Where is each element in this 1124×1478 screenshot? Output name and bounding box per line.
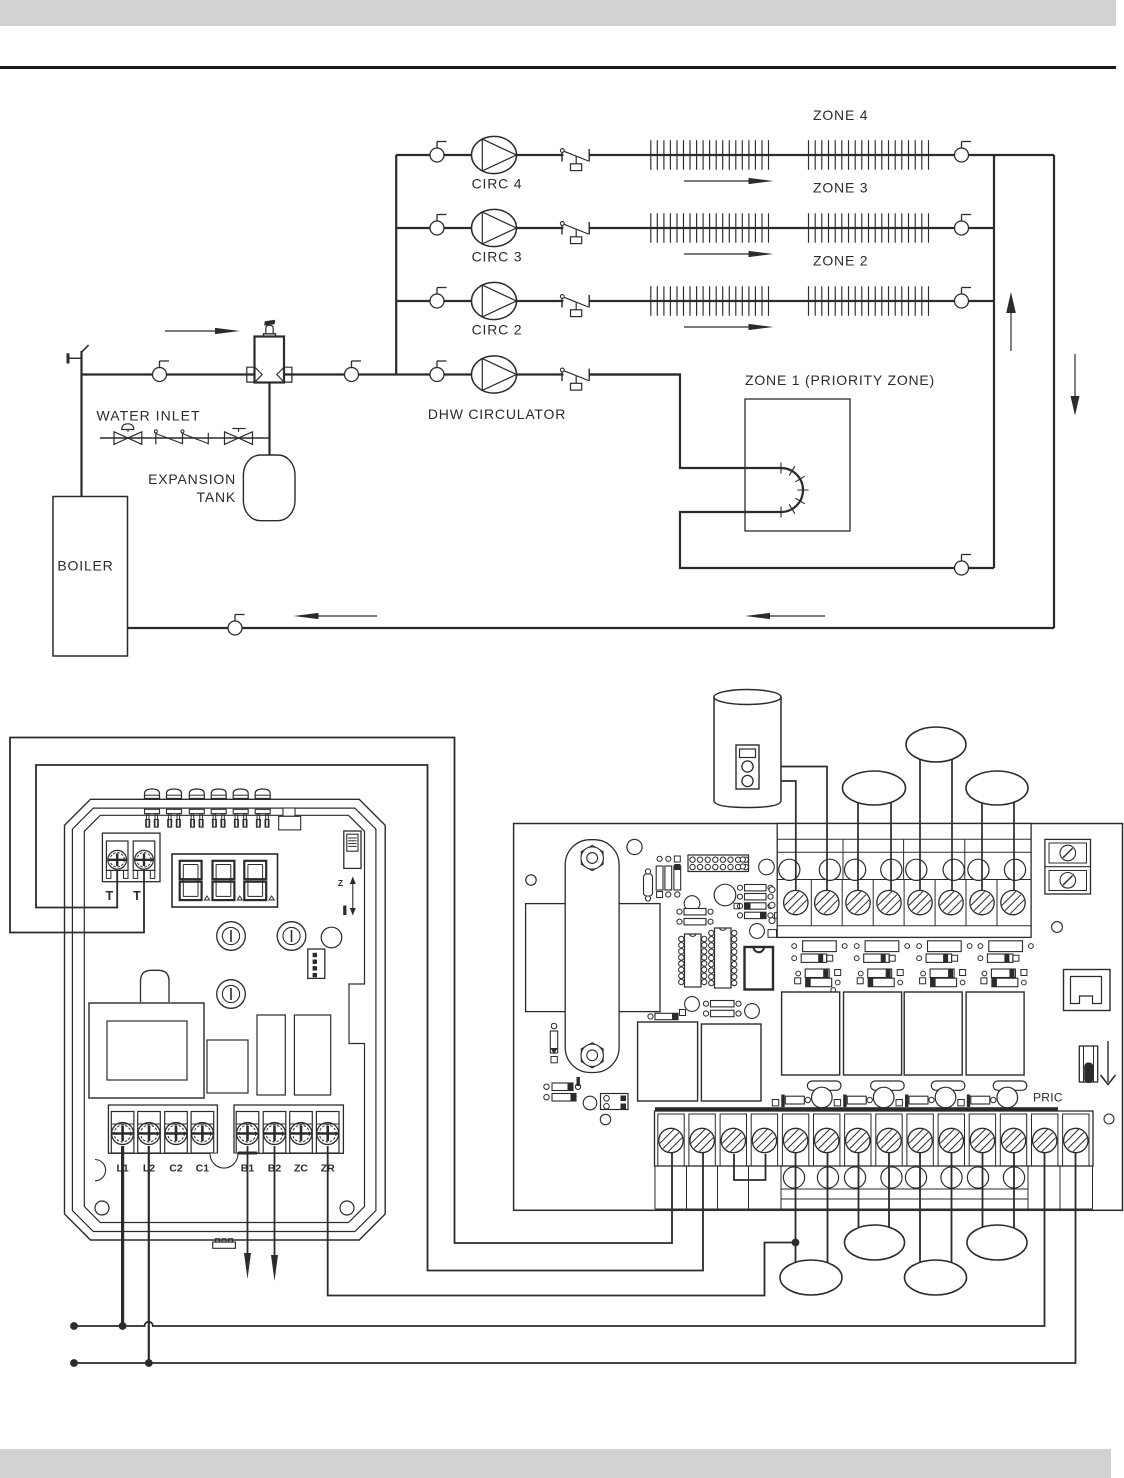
valve at circulator 4 [430,142,447,163]
RJ11 jack [1064,970,1111,1011]
wire inner return trunk [993,155,995,568]
relay K1 [257,1015,285,1095]
svg-text:C2: C2 [169,1163,183,1175]
top terminal strip housing [777,824,1031,938]
mode slide switch [344,831,361,868]
under-strip wire circles [783,1167,1024,1188]
LED D6 [255,789,270,827]
valve on boiler return [228,615,245,636]
component box right of LEDs [279,808,301,830]
priority DIP switch [1079,1046,1097,1083]
valve at circulator 3 [430,215,447,236]
screw terminal B1 [236,1112,259,1154]
indirect water heater tank [714,690,781,808]
relay K3 mid rectangle [207,1040,248,1093]
seven segment digit [213,861,243,900]
wire zone row 4 pipe [396,154,1054,156]
IC U3 [745,947,774,990]
relay RLY3 [904,992,962,1075]
junction dot L2 line2 [145,1359,153,1367]
zone valve switch row 2 [560,295,589,317]
screw terminal ZR [316,1112,339,1154]
radiator fins group A zone 4 [651,140,769,169]
svg-text:ZC: ZC [294,1163,308,1175]
wire zone3 end switch leads [920,748,952,891]
screw terminal B2 [263,1112,286,1154]
screw terminal ZC [290,1112,313,1154]
bottom strip screw terminals 1-14 [658,1114,1089,1166]
thermostat 4 ellipse [967,1225,1027,1260]
screw terminal T1 [106,841,128,878]
mounting hole top [627,839,642,854]
svg-text:BOILER: BOILER [57,558,113,574]
hole bottom right [1104,1114,1114,1124]
svg-text:ZONE 3: ZONE 3 [813,180,868,196]
seven segment display module [172,854,278,907]
svg-text:CIRC 4: CIRC 4 [472,176,523,192]
zone valve switch DHW [560,368,589,390]
junction dot ZR at thermostat 1 wire [792,1239,800,1247]
tank aquastat control [736,745,759,789]
wire left boiler riser [80,351,82,497]
junction dot line2 left end [70,1359,78,1367]
screw terminal L1 [111,1112,134,1154]
potentiometer P3 [217,980,246,1009]
resistor R4 vertical with diode [550,1023,557,1063]
DHW circulator pump [472,356,517,393]
header rule [0,66,1116,69]
seven segment digit [180,861,210,900]
under-strip boxes right [1028,1166,1093,1209]
left board middle case outline [72,808,376,1231]
aux terminal block 2pos [1045,839,1091,894]
header gray bar [0,0,1116,26]
PCB left edge notch [95,1160,106,1181]
priority switch arrow [1101,1041,1116,1085]
zone valve switch row 4 [560,149,589,171]
valve at circulator 2 [430,288,447,309]
boiler [53,497,128,657]
water inlet globe valve with bonnet [114,424,142,445]
hole right of header [759,859,775,875]
resistor bank R1-R3 vertical [656,856,681,898]
transformer block left board [89,1003,204,1098]
relay RLY4 [966,992,1024,1075]
mounting hole left [526,875,536,885]
return valve zone 4 [955,142,972,163]
power terminal strip L1 L2 C2 C1 housing [108,1105,217,1153]
valve at DHW circulator [430,361,447,382]
svg-text:EXPANSION: EXPANSION [148,471,236,487]
transformer bolt bottom [581,1043,603,1068]
return valve zone 2 [955,288,972,309]
wire thermostat loop inner from T1 to zone terminal 2 [36,765,703,1271]
indirect tank heat-exchange coil [758,468,803,512]
screw terminal L2 [138,1112,161,1154]
black tab under B1 [238,1152,257,1155]
wire L1 hot drop [121,1146,124,1326]
LED D2 [167,789,182,827]
zone valve switch row 3 [560,222,589,244]
pin header 2x8 [688,855,749,872]
svg-text:CIRC 3: CIRC 3 [472,249,523,265]
zone 2 end switch ellipse [843,771,906,805]
wire DHW return from tank [680,512,994,568]
return flow arrow left 1 [294,613,378,619]
transformer core vertical [565,840,619,1073]
radiator fins group B zone 4 [809,140,929,169]
flow arrow zone 2 [684,324,774,330]
valve on DHW return [955,555,972,576]
mixing valve MV body [255,320,285,383]
bottom terminal strip housing [655,1111,1094,1166]
junction dot line1 left end [70,1322,78,1330]
wire 120V line 2 [74,1153,1076,1363]
thermostat 3 ellipse [905,1260,967,1295]
wire water inlet line [100,437,270,439]
svg-text:ZONE 4: ZONE 4 [813,107,868,123]
test points left of strip [740,857,776,937]
return flow arrow left 2 [745,613,825,619]
resistor stack right [734,885,780,919]
wire 120V line 1 with hop over L2 wire [74,1153,1045,1326]
LED D4 [211,789,226,827]
wire B1 arrow to boiler [244,1146,251,1279]
hole mid right [1052,922,1063,933]
relay RLY2 [844,992,902,1075]
jumper link terminals 3-4 [734,1154,766,1180]
footer gray bar [0,1449,1111,1478]
wire B2 arrow to boiler [271,1146,278,1281]
4 pin header J1 [308,949,325,978]
IC U1 DIP [679,934,707,987]
wire DHW supply to indirect tank [590,375,758,469]
flow arrow zone 3 [684,251,774,257]
svg-text:CIRC 2: CIRC 2 [472,322,523,338]
expansion tank [243,455,295,521]
wire zone2 end switch leads [858,790,891,891]
screw terminal C2 [165,1112,188,1154]
PCB cutout between C1 and B1 [210,1154,238,1169]
radiator fins group A zone 3 [651,213,769,242]
svg-text:ZONE 2: ZONE 2 [813,253,868,269]
radiator fins group B zone 3 [809,213,929,242]
circulator pump CIRC 3 [472,209,517,246]
coil fin ticks [781,463,809,518]
mounting hole bottom right [340,1201,354,1215]
svg-text:PRIC: PRIC [1033,1091,1063,1105]
terminal block T T housing [102,833,160,882]
air vent fitting on riser top [68,345,89,363]
bottom edge connector [213,1239,236,1249]
capacitor C1 [644,869,653,901]
LED D5 [233,789,248,827]
svg-text:C1: C1 [196,1163,210,1175]
LED D3 [189,789,204,827]
svg-text:T: T [133,889,141,903]
up-down adjust arrow [350,877,356,916]
wire ZR to priority thermostat [328,1146,796,1296]
top strip cell dividers [811,880,997,926]
round cap C4 [750,924,765,939]
varistor clusters above strip [772,1087,1017,1108]
IC U2 DIP [709,928,737,988]
resistor R10 with diode [648,1010,686,1020]
wire thermostat 1 drop [795,1153,797,1263]
under-strip circle row box [781,1166,1028,1209]
relay RLY6 [701,1024,761,1101]
round cap C5 [685,997,700,1012]
potentiometer P2 [277,922,306,951]
round cap C3 [684,896,700,912]
mixing valve right port wedge [277,367,292,382]
under-strip boxes left [655,1166,781,1209]
svg-text:Z: Z [338,878,343,888]
wire thermostat loop outer from T2 to zone terminal 1 [10,738,672,1244]
round component [321,927,342,948]
wire zone row 2 pipe [396,300,994,302]
I marking [343,906,346,916]
wire L2 neutral drop [148,1146,150,1363]
svg-text:TANK: TANK [197,489,237,505]
circulator pump CIRC 2 [472,282,517,319]
relay RLY5 [638,1022,698,1101]
water inlet gate valve with T handle [225,429,253,445]
wire zone row 3 pipe [396,227,994,229]
relay RLY1 [782,992,840,1075]
zone 1 tank outline [745,399,850,531]
valve V1 on supply main [153,361,170,382]
bottom strip top thick bar [655,1107,1058,1111]
svg-text:T: T [106,889,114,903]
round cap C6 [745,1004,760,1019]
wire expansion tank drop pipe [268,383,270,456]
mixing valve left port wedge [247,367,262,382]
right board PCB outline [514,824,1123,1211]
flow arrow zone 4 [684,178,774,184]
seven segment digit [244,861,274,900]
left board PCB outline with right notch [84,815,364,1222]
zone 4 end switch ellipse [966,771,1028,805]
wire tank aquastat lead 1 to terminal 2 [750,767,827,892]
transformer bolt top [581,845,603,870]
top strip wire entry circles [779,859,1026,880]
relay K2 [294,1015,330,1095]
potentiometer P1 [217,922,246,951]
left board outer case outline [65,799,386,1240]
radiator fins group B zone 2 [809,286,929,315]
top strip screw terminals 1-8 [784,890,1026,914]
wire boiler return line [128,627,1055,629]
mounting hole bottom left [95,1201,109,1215]
valve V2 after mixing valve [345,361,362,382]
transformer lamination plate [526,904,660,1012]
wire outer return trunk [1053,155,1055,628]
circulator pump CIRC 4 [472,136,517,173]
screw terminal C1 [191,1112,214,1154]
screw terminal T2 [133,841,155,878]
fuse ovals above strip [807,1081,1026,1090]
wire zone supply trunk [395,155,397,375]
water inlet union break 1 [154,430,182,445]
terminal strip B1 B2 ZC ZR housing [234,1105,343,1153]
zone output resistor rows [792,941,1034,993]
wire supply main from boiler riser to DHW branch [82,373,681,375]
radiator fins group A zone 2 [651,286,769,315]
zone 3 end switch ellipse [906,727,966,762]
water inlet union break 2 [181,430,208,445]
water inlet tick [207,433,209,445]
thermostat 2 ellipse [845,1225,905,1260]
resistor pair mid [677,909,713,925]
flow arrow above supply main [165,328,240,334]
up flow arrow between trunks [1006,292,1016,351]
buzzer component [141,970,170,1002]
svg-text:DHW CIRCULATOR: DHW CIRCULATOR [428,406,566,422]
wire zone4 end switch leads [982,790,1014,891]
snubber cluster bottom left [544,1077,628,1125]
round cap C2 [714,884,736,906]
svg-text:ZONE 1 (PRIORITY ZONE): ZONE 1 (PRIORITY ZONE) [745,372,935,388]
return valve zone 3 [955,215,972,236]
wire tank aquastat lead 2 to terminal 1 [750,781,796,891]
LED D1 [145,789,160,827]
resistor pair lower mid [703,1001,741,1017]
thermostat 1 ellipse [780,1260,842,1295]
top strip inner lines [777,839,1031,926]
junction dot L1 line1 [119,1322,127,1330]
svg-text:WATER INLET: WATER INLET [97,408,201,424]
wire thermostat leads below strip [828,1153,1015,1264]
down flow arrow right of trunk [1071,354,1080,416]
